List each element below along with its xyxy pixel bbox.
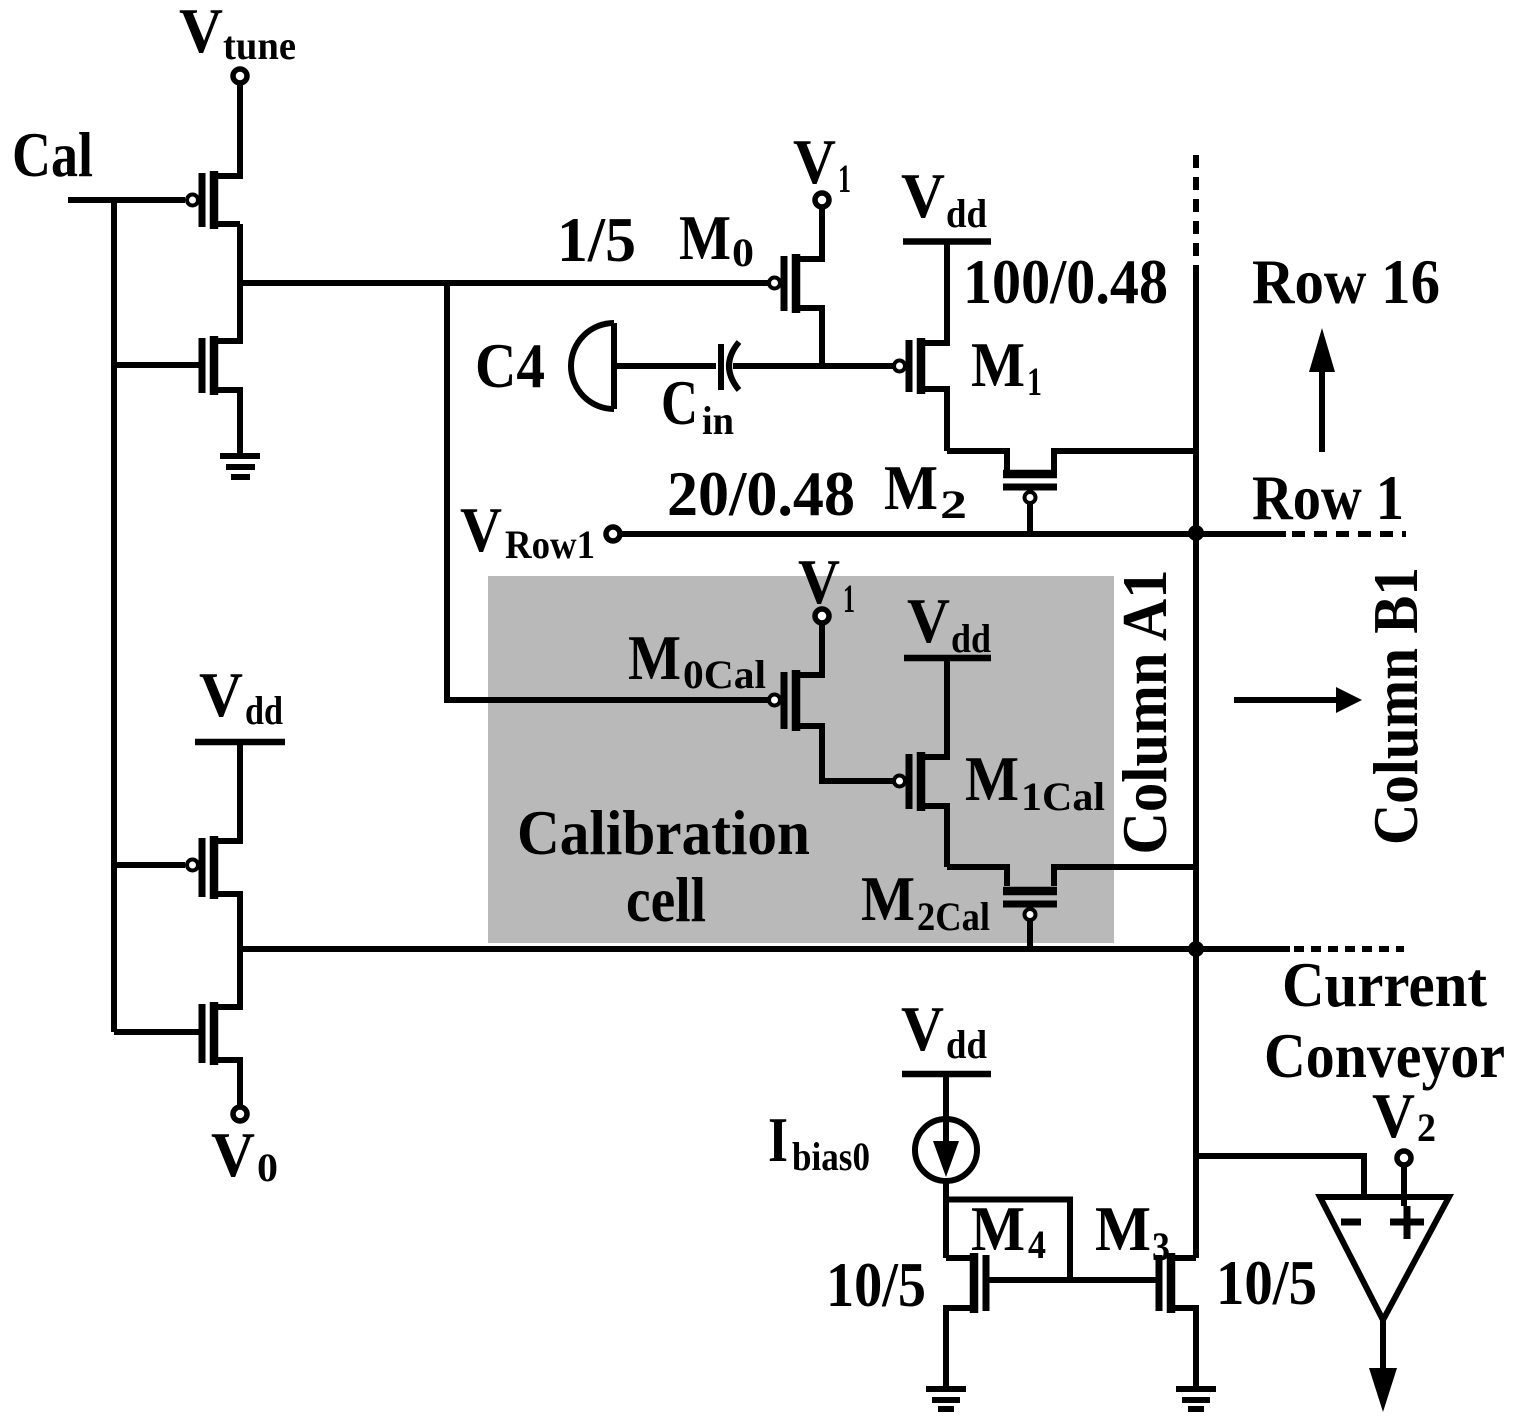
wire branch down to M0Cal gate [447, 283, 769, 700]
wire M1Cal drain to M2Cal [947, 867, 1007, 886]
wire Row 1 line [620, 531, 1286, 537]
svg-text:dd: dd [951, 616, 991, 661]
svg-text:in: in [702, 398, 734, 443]
svg-text:Column B1: Column B1 [1360, 567, 1431, 845]
transistor M2Cal PMOS horizontal [1003, 887, 1057, 896]
node Vtune terminal [233, 69, 247, 83]
node V1 terminal (cal) [815, 609, 829, 623]
svg-text:Column A1: Column A1 [1109, 570, 1180, 855]
power Vdd bar left [195, 739, 285, 746]
transistor PMOS V0-branch upper [210, 836, 219, 899]
svg-text:1: 1 [1027, 359, 1042, 404]
ground M4 [926, 1386, 966, 1392]
svg-text:10/5: 10/5 [1216, 1247, 1317, 1318]
capacitor C4 half-disc [571, 323, 614, 409]
svg-text:20/0.48: 20/0.48 [667, 458, 855, 529]
svg-text:M: M [628, 622, 681, 693]
svg-text:Row 1: Row 1 [1252, 462, 1404, 533]
node V1 terminal upper [815, 193, 829, 207]
power Vdd bar bottom [902, 1071, 991, 1078]
svg-text:Row 16: Row 16 [1252, 246, 1440, 317]
svg-text:Row1: Row1 [505, 522, 595, 567]
svg-text:100/0.48: 100/0.48 [963, 246, 1168, 317]
wire Cal to PMOS gate [68, 197, 185, 203]
svg-text:0: 0 [257, 1145, 278, 1190]
svg-text:dd: dd [946, 1022, 987, 1067]
svg-text:0Cal: 0Cal [683, 652, 766, 697]
svg-text:M: M [861, 863, 915, 934]
wire Row 1 dashed extension [1292, 531, 1406, 537]
arrow right (columns) [1234, 697, 1338, 703]
wire M4 drain-gate tie [946, 1200, 1070, 1282]
svg-text:1/5: 1/5 [557, 204, 636, 275]
node VRow1 terminal [606, 527, 620, 541]
node junction dot conveyor/ColumnA1 [1188, 941, 1204, 957]
svg-text:1: 1 [843, 576, 855, 621]
wire drain node to M0 gate row [240, 280, 768, 286]
node junction dot Row1/ColumnA1 [1188, 525, 1204, 541]
wire Cin to M1 gate [733, 363, 893, 369]
svg-text:3: 3 [1152, 1224, 1170, 1269]
transistor NMOS V0-branch lower [210, 1002, 219, 1065]
svg-text:dd: dd [946, 191, 987, 236]
current source Ibias0 [915, 1119, 977, 1181]
transistor NMOS cal-switch lower [210, 336, 219, 395]
svg-text:M: M [971, 1193, 1025, 1264]
wire column to conveyor minus input [1196, 1156, 1364, 1197]
transistor PMOS cal-switch upper (gate=Cal) [210, 171, 219, 229]
svg-text:bias0: bias0 [792, 1134, 870, 1179]
label plus input [1390, 1219, 1424, 1226]
ground top-left [220, 453, 260, 459]
transistor M1Cal PMOS [917, 752, 926, 811]
svg-text:V: V [1372, 1080, 1415, 1151]
wire C4 to Cin [617, 363, 716, 369]
power Vdd bar (M1Cal) [904, 655, 991, 662]
svg-text:M: M [1095, 1193, 1151, 1264]
label minus input [1341, 1219, 1361, 1226]
svg-text:cell: cell [626, 864, 706, 935]
wire Column A1 dashed top [1193, 155, 1199, 268]
svg-text:M: M [679, 202, 731, 273]
svg-text:C: C [661, 367, 698, 438]
arrow up (rows) [1319, 368, 1325, 452]
wire Ibias0 to M4 drain [943, 1181, 949, 1258]
op-amp current conveyor triangle [1320, 1197, 1449, 1320]
capacitor Cin [718, 344, 724, 390]
power Vdd bar (M1) [903, 238, 991, 245]
svg-text:V: V [460, 494, 502, 565]
wire current conveyor row line [240, 946, 1290, 952]
transistor M0 PMOS [792, 254, 801, 313]
node V2 terminal [1397, 1151, 1411, 1165]
svg-text:V: V [793, 126, 836, 197]
svg-text:V: V [211, 1119, 255, 1190]
svg-text:0: 0 [732, 230, 754, 275]
arrow conveyor output down [1380, 1320, 1386, 1372]
svg-text:4: 4 [1028, 1222, 1046, 1267]
svg-text:1: 1 [838, 156, 851, 201]
svg-text:C4: C4 [475, 330, 545, 401]
svg-text:2: 2 [940, 482, 967, 527]
svg-text:V: V [901, 993, 944, 1064]
transistor M0Cal PMOS [792, 670, 801, 731]
ground M3 [1176, 1386, 1216, 1392]
transistor M1 PMOS [917, 338, 926, 394]
svg-text:Cal: Cal [12, 119, 93, 190]
transistor M3 NMOS [1167, 1253, 1176, 1313]
svg-text:M: M [884, 452, 938, 523]
svg-text:M: M [971, 329, 1025, 400]
wire cal vertical bus [111, 200, 117, 1032]
svg-text:dd: dd [245, 688, 283, 733]
svg-text:M: M [965, 743, 1019, 814]
svg-text:I: I [768, 1104, 788, 1175]
svg-text:V: V [798, 546, 840, 617]
svg-text:tune: tune [223, 23, 296, 68]
svg-text:Current: Current [1282, 949, 1488, 1020]
svg-text:1Cal: 1Cal [1021, 774, 1105, 819]
svg-text:2: 2 [1417, 1105, 1436, 1150]
wire V2 to plus input [1401, 1165, 1407, 1206]
svg-text:V: V [199, 659, 243, 730]
svg-text:10/5: 10/5 [826, 1249, 926, 1320]
transistor M4 NMOS [970, 1253, 979, 1313]
calibration cell gray box [488, 576, 1114, 943]
svg-text:V: V [907, 585, 950, 656]
svg-text:V: V [179, 0, 223, 66]
svg-text:Calibration: Calibration [517, 797, 810, 868]
wire conveyor row dashed extension [1294, 946, 1404, 952]
svg-text:V: V [901, 160, 945, 231]
wire M1 drain to M2 [947, 451, 1007, 470]
wire PMOS drain to NMOS drain [214, 224, 240, 341]
wire Column A1 vertical line [1193, 266, 1199, 1258]
node V0 terminal [233, 1107, 247, 1121]
transistor M2 PMOS horizontal [1003, 470, 1057, 479]
wire Vtune to PMOS source [214, 83, 240, 176]
svg-text:2Cal: 2Cal [917, 894, 990, 939]
wire gate bus M4-M3 [989, 1277, 1157, 1283]
